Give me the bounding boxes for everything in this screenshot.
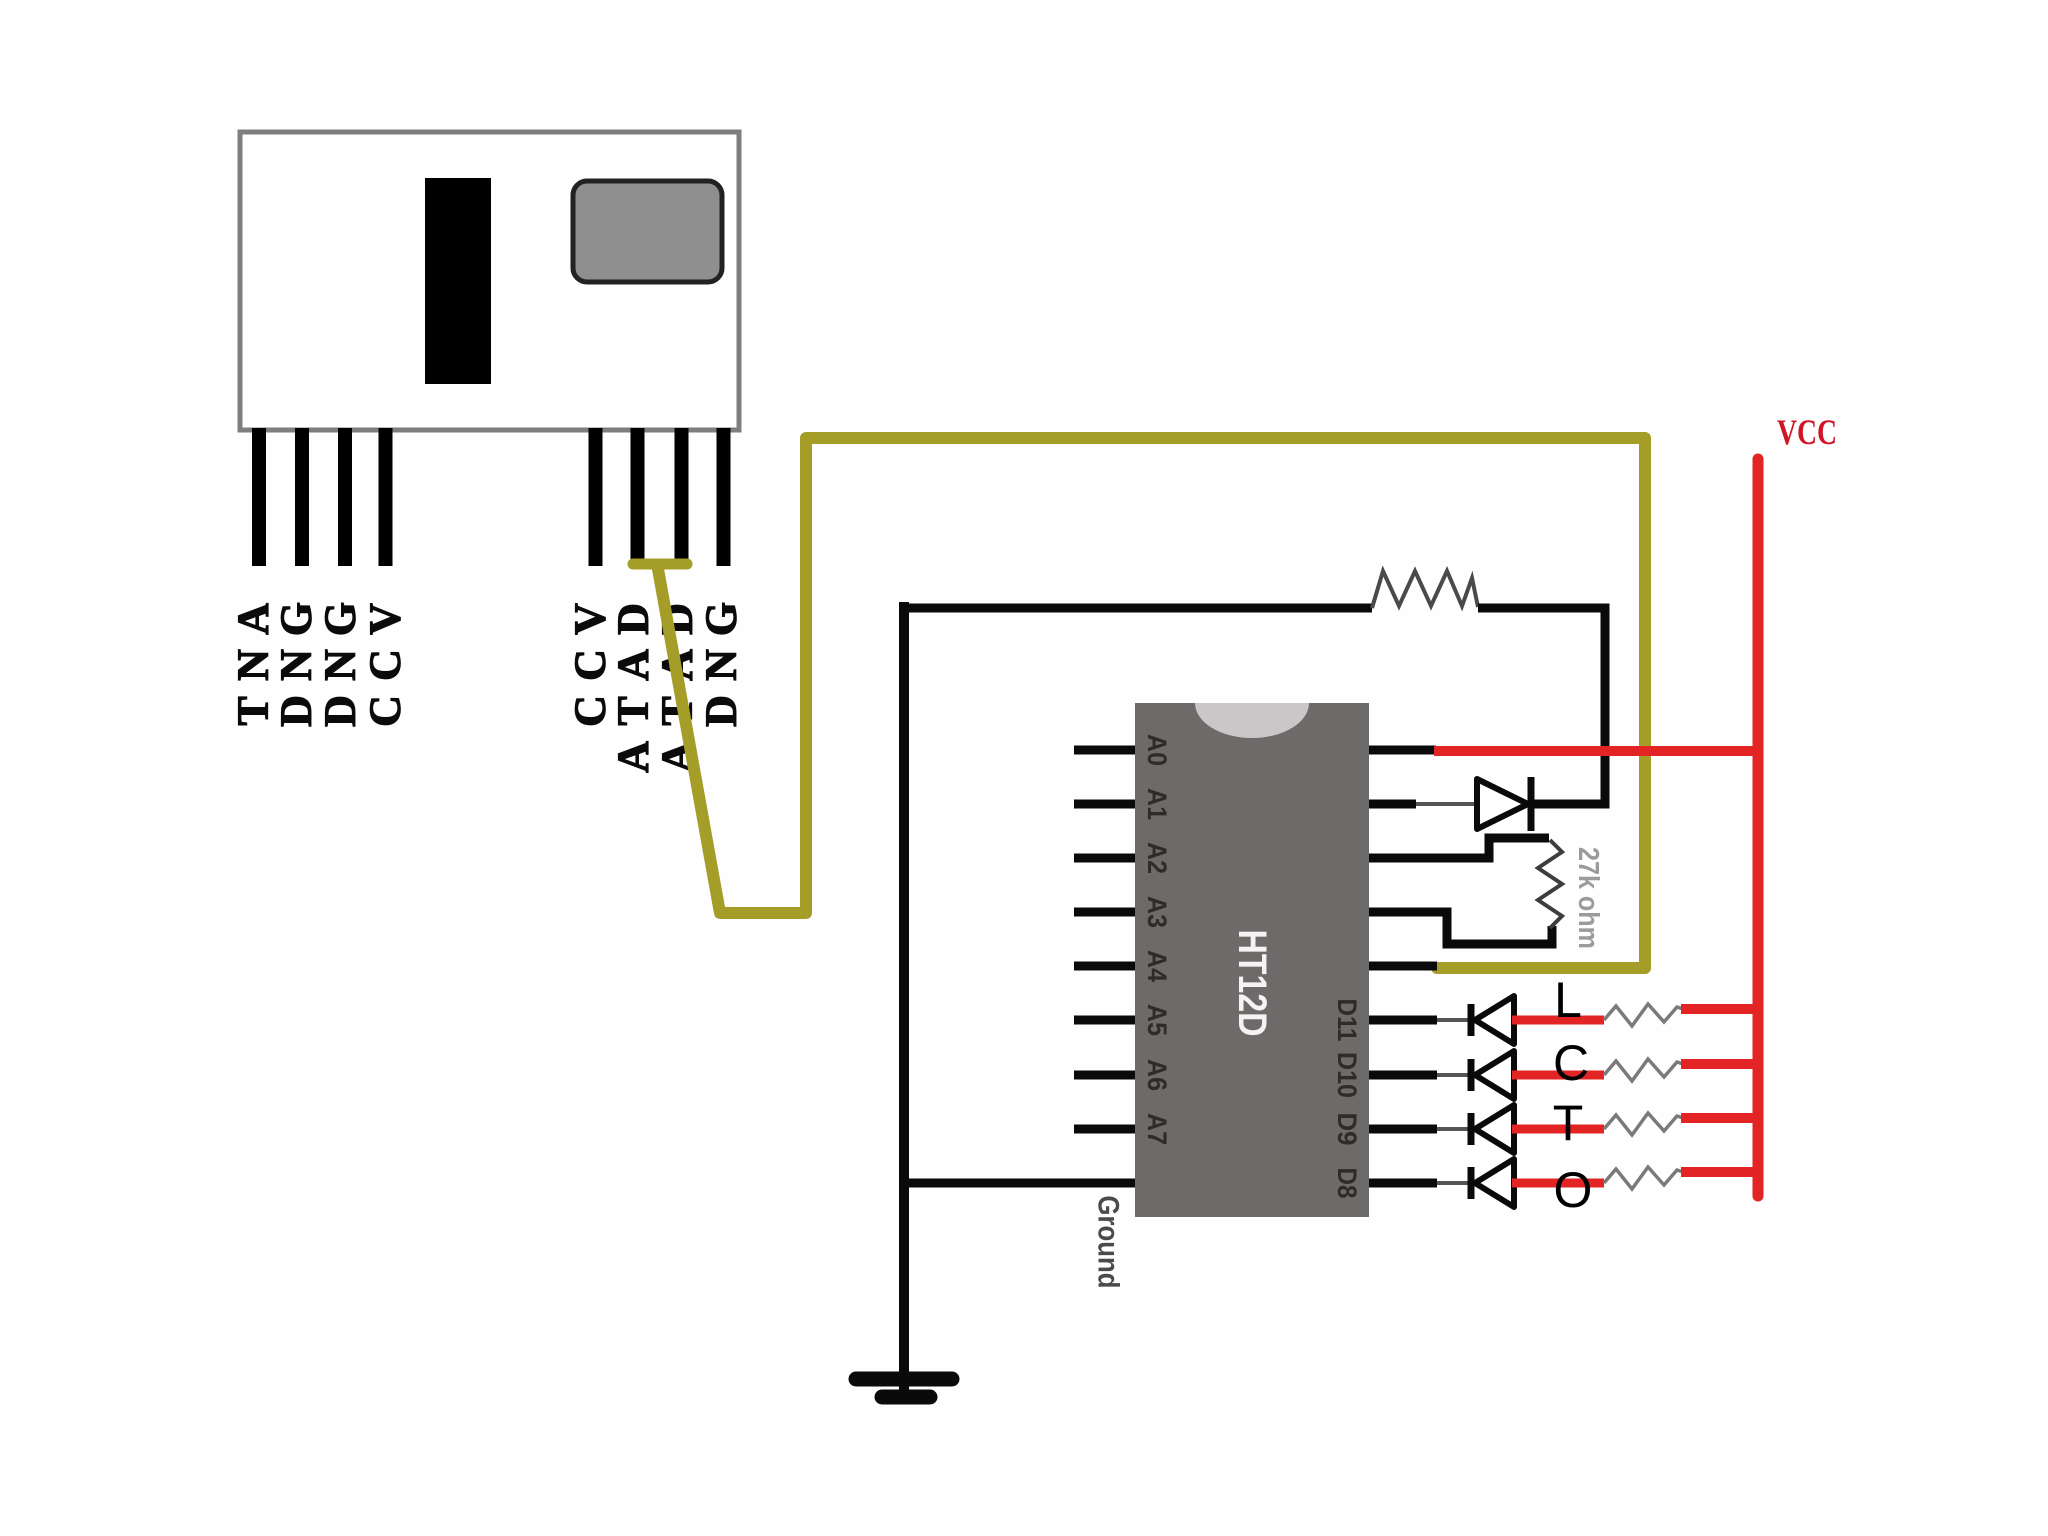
svg-text:A6: A6 [1142, 1059, 1172, 1091]
svg-text:A1: A1 [1142, 788, 1172, 820]
svg-text:HT12D: HT12D [1230, 930, 1274, 1037]
svg-text:D10: D10 [1332, 1052, 1362, 1098]
svg-text:C: C [361, 695, 410, 727]
svg-text:D9: D9 [1332, 1113, 1362, 1146]
svg-text:A: A [609, 649, 658, 681]
svg-text:A7: A7 [1142, 1113, 1172, 1145]
svg-text:G: G [272, 602, 321, 636]
svg-text:A: A [609, 741, 658, 773]
svg-text:A2: A2 [1142, 842, 1172, 874]
svg-text:C: C [566, 695, 615, 727]
svg-text:A0: A0 [1142, 734, 1172, 766]
svg-text:A4: A4 [1142, 950, 1172, 982]
svg-text:Ground: Ground [1092, 1196, 1125, 1289]
svg-text:N: N [272, 649, 321, 681]
svg-text:G: G [697, 602, 746, 636]
svg-text:T: T [609, 696, 658, 725]
svg-text:A3: A3 [1142, 896, 1172, 928]
svg-text:O: O [1554, 1162, 1593, 1218]
svg-text:D8: D8 [1332, 1168, 1362, 1199]
svg-text:D: D [272, 695, 321, 727]
svg-text:L: L [1554, 972, 1582, 1028]
svg-text:C: C [566, 649, 615, 681]
svg-text:V: V [566, 603, 615, 635]
svg-text:G: G [316, 602, 365, 636]
svg-text:C: C [361, 649, 410, 681]
svg-text:D11: D11 [1332, 999, 1362, 1042]
svg-text:N: N [316, 649, 365, 681]
svg-text:VCC: VCC [1777, 412, 1837, 452]
svg-text:C: C [1553, 1035, 1589, 1091]
svg-text:D: D [609, 603, 658, 635]
svg-text:D: D [316, 695, 365, 727]
svg-text:T: T [229, 696, 278, 725]
svg-text:27k ohm: 27k ohm [1572, 847, 1604, 949]
svg-text:T: T [1553, 1095, 1584, 1151]
svg-text:A: A [229, 603, 278, 635]
svg-text:N: N [229, 649, 278, 681]
svg-text:D: D [697, 695, 746, 727]
svg-text:V: V [361, 603, 410, 635]
svg-text:N: N [697, 649, 746, 681]
svg-text:A5: A5 [1142, 1004, 1172, 1036]
